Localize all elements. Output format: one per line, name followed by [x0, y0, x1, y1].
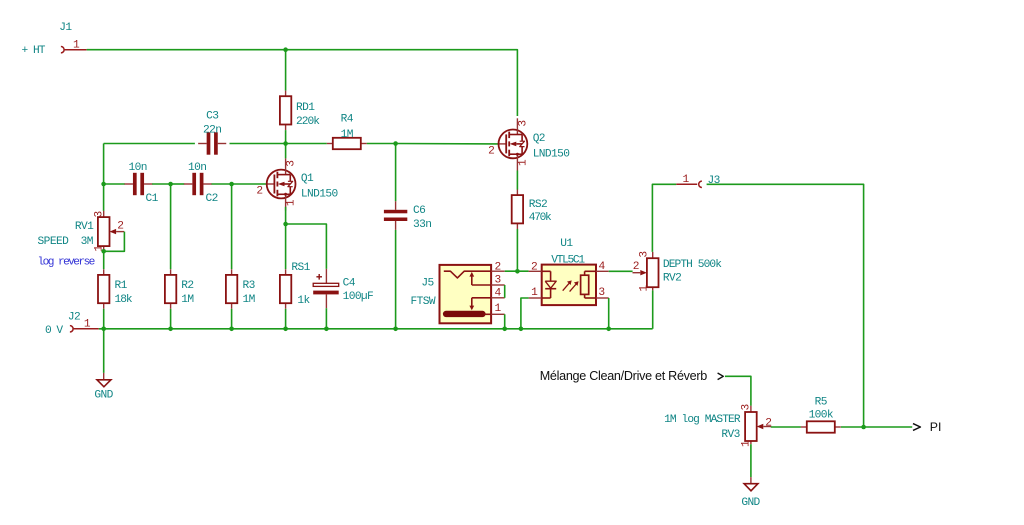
svg-text:Mélange Clean/Drive et Réverb: Mélange Clean/Drive et Réverb [540, 369, 708, 383]
capacitor C2 [184, 162, 218, 205]
potentiometer RV2 [633, 252, 723, 292]
wire node E to Q1 gate [232, 183, 266, 185]
ground GND right [741, 477, 760, 509]
svg-text:1M log MASTER: 1M log MASTER [664, 414, 741, 426]
wire node D to C2 [171, 183, 185, 185]
svg-text:R1: R1 [115, 280, 128, 292]
svg-text:1M: 1M [243, 294, 255, 306]
svg-text:PI: PI [930, 420, 942, 434]
wire HT to RD1 [285, 50, 287, 91]
wire U1 pin4 to RV2 wiper [609, 270, 633, 272]
capacitor C3 [198, 111, 226, 155]
svg-text:VTL5C1: VTL5C1 [551, 254, 585, 266]
wire node A to C3 [104, 143, 195, 145]
wire RS2 to node F [516, 229, 518, 271]
svg-text:1M: 1M [181, 294, 193, 306]
wire C6 to 0V rail [395, 230, 397, 329]
svg-text:J2: J2 [68, 311, 80, 323]
wire HT rail to Q2 drain [286, 50, 518, 116]
svg-text:C4: C4 [343, 277, 356, 289]
wire node B to Q1 drain [285, 144, 287, 159]
svg-text:2: 2 [531, 262, 537, 274]
junction [168, 327, 173, 332]
junction [393, 141, 398, 146]
svg-text:4: 4 [495, 288, 502, 300]
junction [283, 327, 288, 332]
wire R4 to node C [367, 143, 396, 145]
wire node E to R3 [231, 184, 233, 269]
svg-text:2: 2 [633, 261, 639, 273]
svg-text:10n: 10n [129, 162, 147, 174]
junction [606, 327, 611, 332]
wire to RV1 [103, 184, 105, 211]
junction [283, 47, 288, 52]
svg-text:DEPTH 500k: DEPTH 500k [663, 259, 722, 271]
svg-text:SPEED 3M: SPEED 3M [38, 236, 93, 248]
resistor R3 [226, 269, 255, 309]
resistor RD1 [280, 91, 320, 131]
svg-text:100k: 100k [809, 410, 834, 422]
wire R1 to 0V rail [103, 309, 105, 329]
svg-text:Q2: Q2 [533, 133, 545, 145]
wire RS1 to 0V rail [285, 309, 287, 329]
svg-text:GND: GND [741, 497, 760, 509]
svg-text:3: 3 [495, 275, 501, 287]
transistor Q1 [256, 158, 338, 210]
junction [393, 327, 398, 332]
wire RV3 pin1 to GND [750, 444, 752, 477]
label PI [913, 420, 941, 434]
svg-text:1: 1 [639, 285, 651, 292]
svg-text:2: 2 [495, 261, 501, 273]
svg-text:R3: R3 [243, 280, 255, 292]
svg-text:33n: 33n [413, 219, 431, 231]
junction [519, 327, 524, 332]
svg-text:U1: U1 [560, 238, 573, 250]
label Melange Clean/Drive et Reverb [540, 369, 724, 383]
svg-text:470k: 470k [529, 212, 552, 224]
svg-text:R5: R5 [815, 397, 827, 409]
wire RV2 pin1 to 0V rail [652, 290, 654, 328]
svg-text:3: 3 [286, 161, 298, 167]
junction [229, 327, 234, 332]
capacitor C4 [313, 269, 373, 308]
wire R3 to 0V rail [231, 309, 233, 329]
junction [515, 269, 520, 274]
capacitor C1 [124, 162, 158, 205]
svg-text:100µF: 100µF [343, 291, 374, 303]
svg-text:1: 1 [683, 174, 690, 186]
junction [861, 425, 866, 430]
svg-text:2: 2 [765, 417, 771, 429]
svg-text:RV1: RV1 [75, 221, 94, 233]
wire RV1 wiper loop [104, 232, 125, 252]
wire RV1 to R1 [103, 251, 105, 269]
svg-text:1: 1 [517, 159, 529, 166]
potentiometer RV1 [38, 211, 125, 252]
svg-text:J5: J5 [421, 277, 433, 289]
svg-text:0 V: 0 V [45, 325, 63, 337]
svg-text:1: 1 [73, 39, 80, 51]
wire RV2 pin3 to J3 [652, 184, 676, 252]
svg-text:4: 4 [599, 261, 606, 273]
connector J1 [22, 22, 87, 57]
svg-text:1: 1 [531, 287, 538, 299]
svg-text:RD1: RD1 [296, 102, 315, 114]
svg-text:3: 3 [94, 211, 106, 217]
junction [324, 327, 329, 332]
svg-text:3: 3 [638, 252, 650, 258]
wire R5 to PI [841, 426, 912, 428]
wire J3 to output node [707, 184, 864, 427]
wire J5 pin1 to 0V rail [504, 314, 506, 329]
svg-text:3: 3 [740, 404, 752, 410]
wire C2 to node E [212, 183, 232, 185]
svg-text:2: 2 [488, 145, 494, 157]
svg-text:RV3: RV3 [721, 429, 739, 441]
connector J2 [45, 311, 99, 337]
optocoupler U1 VTL5C1 [529, 238, 609, 305]
svg-text:LND150: LND150 [533, 149, 571, 161]
svg-text:C6: C6 [413, 205, 425, 217]
svg-text:10n: 10n [188, 162, 206, 174]
svg-text:1k: 1k [297, 295, 310, 307]
wire label to RV3 [725, 376, 751, 405]
resistor RS2 [512, 190, 552, 230]
svg-text:FTSW: FTSW [411, 296, 436, 308]
wire node A2 to C1 [104, 183, 125, 185]
svg-text:3: 3 [517, 121, 529, 127]
wire C3 to node B [230, 143, 286, 145]
svg-text:3: 3 [598, 287, 604, 299]
svg-text:22n: 22n [203, 124, 221, 136]
potentiometer RV3 [664, 404, 771, 447]
svg-text:1: 1 [286, 199, 298, 206]
svg-text:2: 2 [256, 186, 262, 198]
junction [502, 327, 507, 332]
wire to C4 [286, 224, 327, 269]
svg-text:1: 1 [84, 319, 91, 331]
junction [229, 182, 234, 187]
svg-text:C3: C3 [206, 111, 218, 123]
wire Q2 source to RS2 [516, 171, 518, 190]
svg-text:1M: 1M [341, 129, 353, 141]
svg-text:R2: R2 [181, 280, 193, 292]
resistor R2 [165, 269, 194, 309]
svg-text:log reverse: log reverse [38, 257, 95, 269]
junction [101, 249, 106, 254]
svg-text:1: 1 [495, 303, 502, 315]
wire node A down [103, 144, 105, 185]
transistor Q2 [488, 118, 570, 170]
resistor R1 [98, 269, 133, 309]
resistor R4 [327, 113, 367, 149]
svg-text:Q1: Q1 [301, 173, 314, 185]
wire C4 to 0V rail [325, 308, 327, 329]
connector J3 [676, 174, 719, 188]
svg-text:GND: GND [94, 390, 113, 402]
ground GND [94, 373, 113, 402]
wire 0V rail [99, 328, 653, 330]
svg-text:RV2: RV2 [663, 273, 681, 285]
wire C1 to node D [152, 183, 171, 185]
junction [101, 182, 106, 187]
svg-text:C1: C1 [146, 193, 159, 205]
wire to GND [103, 329, 105, 373]
svg-text:RS1: RS1 [291, 262, 310, 274]
wire Q1 source [285, 207, 287, 224]
wire RV3 wiper to R5 [771, 426, 801, 429]
junction [101, 327, 106, 332]
wire node C to C6 [395, 144, 397, 202]
svg-text:R4: R4 [341, 113, 354, 125]
wire node B to R4 [286, 143, 327, 145]
resistor R5 [801, 397, 841, 433]
wire RD1 to node [285, 130, 287, 143]
switch J5 FTSW [411, 261, 505, 323]
wire U1 pin3 to 0V rail [608, 298, 610, 329]
svg-text:LND150: LND150 [301, 189, 339, 201]
wire J5 pin3 to pin4 [504, 285, 506, 298]
wire HT rail left [87, 49, 286, 51]
svg-text:18k: 18k [115, 294, 133, 306]
wire R2 to 0V rail [170, 309, 172, 329]
svg-text:RS2: RS2 [529, 199, 547, 211]
junction [283, 222, 288, 227]
resistor RS1 [280, 262, 311, 309]
svg-text:C2: C2 [206, 193, 218, 205]
wire to RS1 [285, 224, 287, 269]
junction [283, 141, 288, 146]
junction [168, 182, 173, 187]
svg-text:+ HT: + HT [22, 45, 46, 57]
svg-text:220k: 220k [296, 116, 320, 128]
capacitor C6 [384, 201, 431, 231]
wire J5 pin2 to U1 pin2 [505, 270, 529, 272]
wire node C to Q2 gate [396, 143, 499, 145]
svg-text:2: 2 [117, 221, 123, 233]
wire node D to R2 [170, 184, 172, 269]
wire U1 pin1 to 0V rail [521, 298, 529, 329]
svg-text:J1: J1 [59, 22, 72, 34]
